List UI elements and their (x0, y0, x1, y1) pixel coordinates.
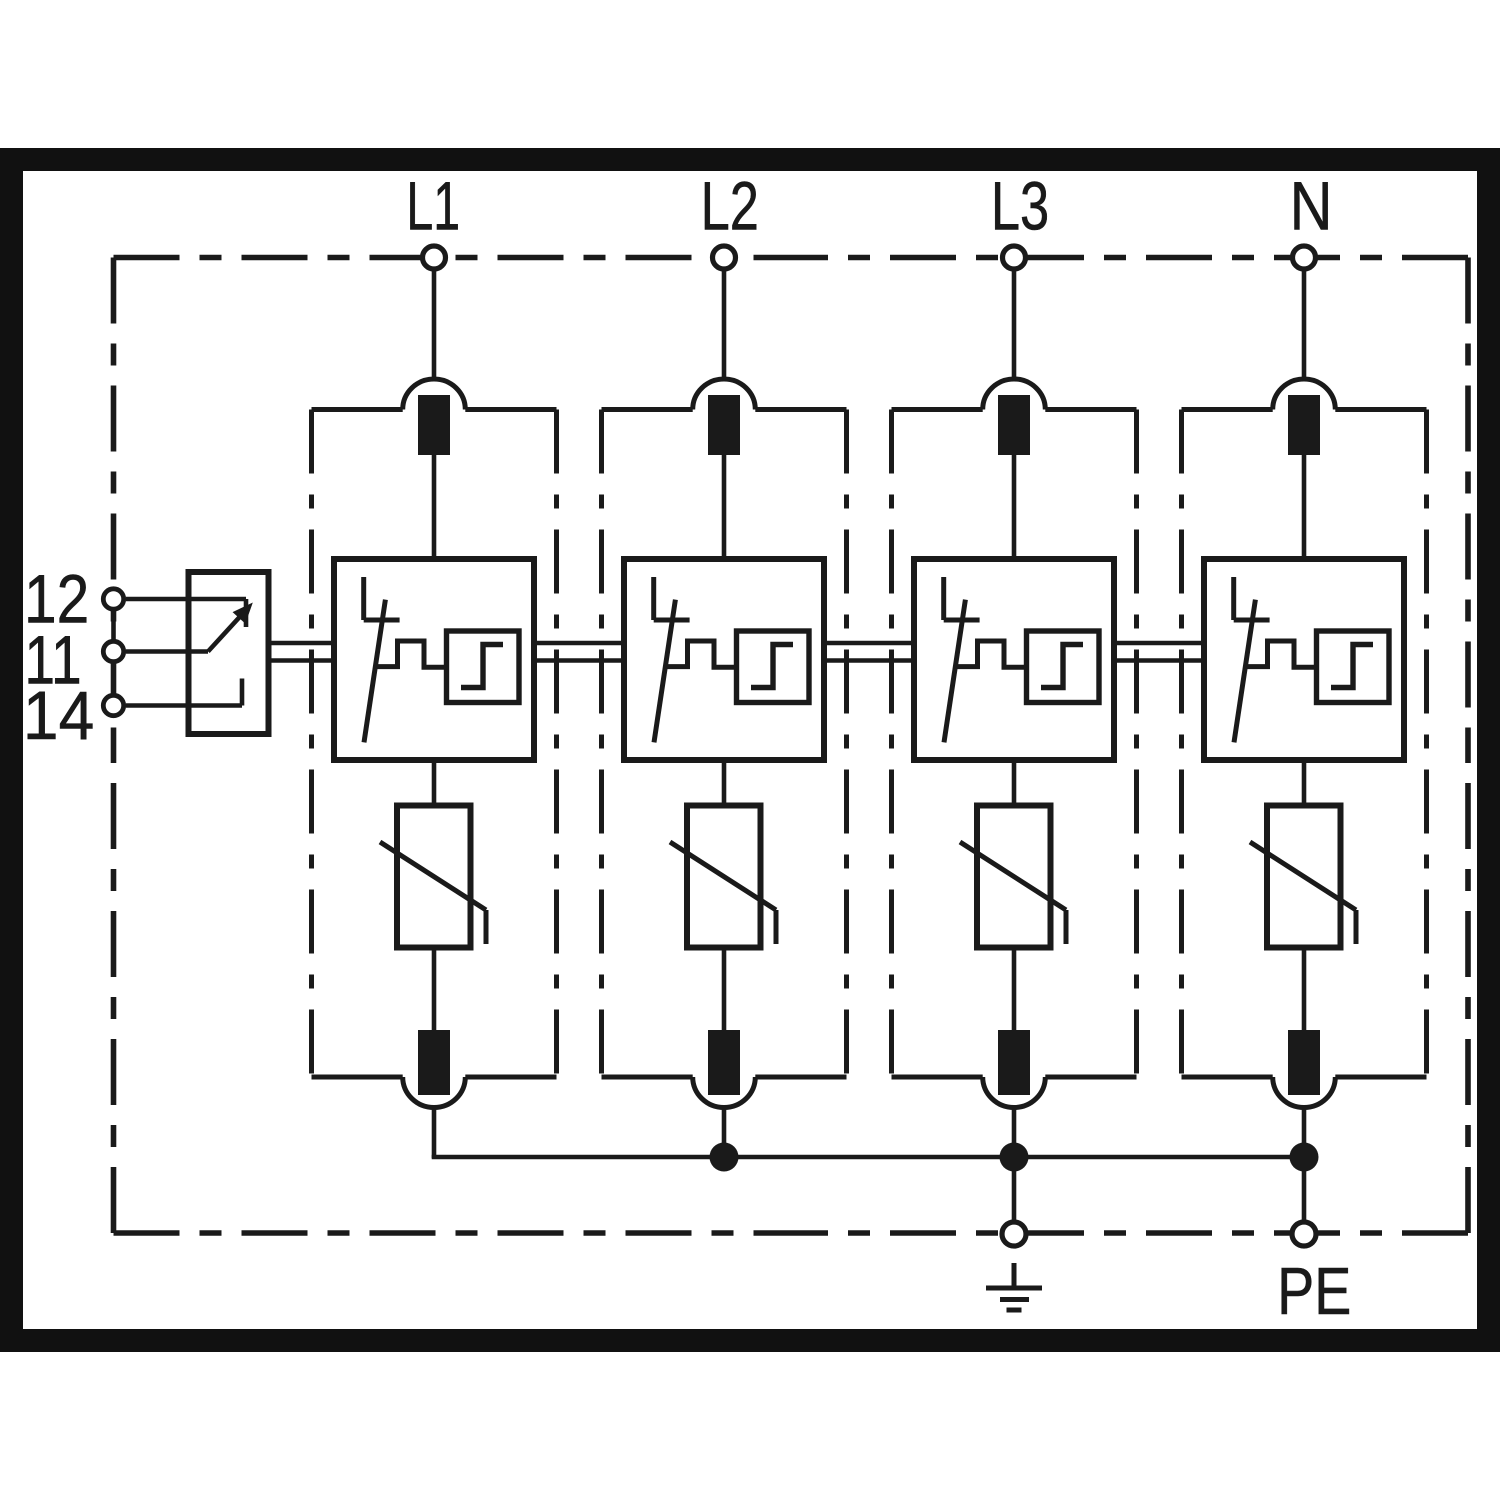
svg-text:14: 14 (23, 678, 94, 755)
svg-text:L3: L3 (991, 168, 1049, 245)
svg-text:PE: PE (1277, 1254, 1351, 1329)
svg-text:N: N (1290, 167, 1333, 244)
svg-text:L1: L1 (406, 167, 460, 245)
svg-text:L2: L2 (701, 168, 759, 245)
